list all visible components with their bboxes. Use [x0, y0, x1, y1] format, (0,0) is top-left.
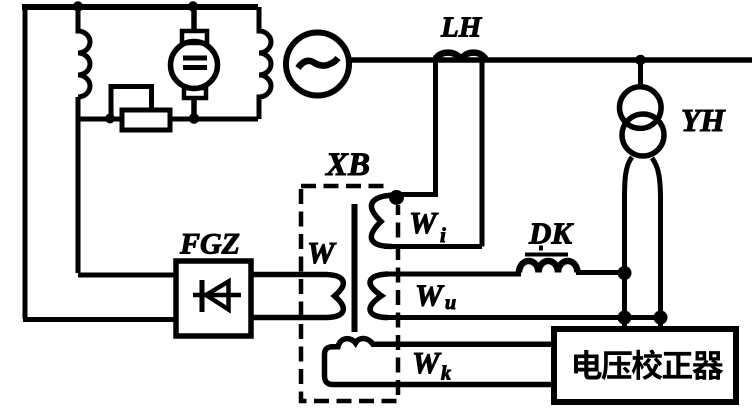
wire LH right secondary lead	[384, 60, 482, 247]
node junction Wu bottom right	[654, 311, 668, 325]
svg-text:u: u	[445, 292, 456, 314]
wire Wu bottom lead	[384, 315, 662, 320]
resistor R1 (field rheostat)	[122, 110, 170, 130]
svg-text:XB: XB	[325, 147, 370, 183]
winding Wu	[370, 274, 388, 318]
wire left outer vertical	[23, 5, 28, 319]
node junction Wu bottom left	[618, 311, 632, 325]
node junction on top bus at motor	[188, 1, 198, 11]
wire inner vertical down to FGZ	[76, 97, 81, 273]
winding W primary	[251, 275, 343, 318]
svg-text:W: W	[415, 278, 445, 313]
box XB dashed	[301, 186, 398, 401]
transformer LH current transformer loops	[435, 53, 486, 61]
svg-text:W: W	[409, 205, 439, 240]
wire main top bus	[349, 57, 752, 63]
svg-text:LH: LH	[440, 12, 483, 44]
node junction Wu top to YH	[618, 266, 632, 280]
wire motor top stub	[191, 7, 197, 32]
inductor DK	[519, 261, 578, 273]
wire Wu top lead	[384, 272, 521, 277]
wire top bus of excitation box	[22, 4, 258, 10]
wire motor bottom stub	[191, 97, 197, 119]
AC source G~	[286, 33, 349, 96]
svg-text:FGZ: FGZ	[179, 228, 240, 261]
node junction under motor	[189, 113, 200, 124]
wire DK to YH left lead	[576, 270, 626, 275]
node junction Wi top terminal	[389, 190, 404, 205]
label 电压校正器	[574, 349, 723, 380]
generator G (exciter machine)	[171, 42, 218, 89]
winding Wi	[371, 195, 394, 247]
node junction on top bus at field winding	[73, 1, 83, 11]
wire bottom of excitation box	[78, 117, 258, 122]
node junction on bus at YH	[635, 55, 646, 66]
svg-text:i: i	[440, 223, 446, 247]
inductor field winding L1 (left coil)	[78, 7, 90, 97]
box FGZ	[176, 261, 251, 336]
wire inner-to-FGZ upper lead	[78, 273, 178, 278]
svg-text:W: W	[307, 235, 337, 270]
wire YH secondary left lead	[625, 157, 633, 327]
switch bypass link over resistor	[111, 87, 152, 120]
box voltage corrector	[554, 329, 736, 402]
wire outer-to-FGZ lower lead	[23, 317, 178, 322]
svg-text:YH: YH	[681, 103, 726, 138]
svg-text:DK: DK	[528, 216, 574, 251]
node junction at bypass link	[105, 114, 115, 124]
wire LH left secondary lead	[399, 60, 438, 195]
inductor armature coil (right coil)	[259, 7, 271, 119]
transformer YH	[638, 60, 643, 85]
transformer core	[352, 204, 358, 332]
svg-text:k: k	[441, 363, 451, 385]
diode D1	[193, 293, 241, 298]
svg-text:W: W	[412, 345, 442, 380]
winding Wk	[325, 338, 555, 384]
wire YH secondary right lead	[652, 158, 661, 332]
